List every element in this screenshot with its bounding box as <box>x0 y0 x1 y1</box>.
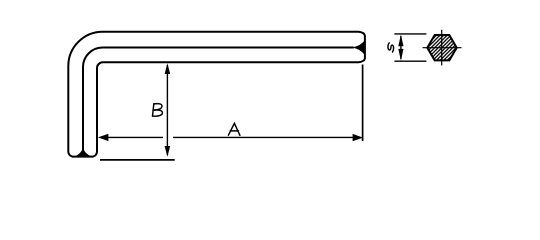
dimension A line left segment <box>108 136 163 138</box>
hexagon horizontal centerline <box>423 47 462 49</box>
extension line bottom (B) <box>100 159 175 161</box>
s label (rotated) <box>388 43 394 52</box>
hex key middle edge line <box>83 48 354 151</box>
B arrow down <box>165 146 171 157</box>
s dimension extension lines <box>394 34 426 61</box>
extension line right (A) <box>362 65 364 142</box>
s arrow up <box>398 35 403 47</box>
dimension B line <box>166 65 168 155</box>
dimension A line right segment <box>173 136 353 138</box>
B arrow up <box>165 63 171 74</box>
A arrow left <box>98 134 108 141</box>
B label <box>153 104 163 117</box>
hex key body outline <box>68 32 365 157</box>
hexagon cross-section <box>427 35 456 60</box>
s arrow down <box>398 49 403 61</box>
hexagon vertical centerline <box>441 30 443 66</box>
bottom tip chamfer wedge <box>75 149 91 157</box>
A label <box>228 123 240 135</box>
A arrow right <box>353 134 363 141</box>
right tip chamfer wedge <box>354 41 365 54</box>
s dimension arrow line <box>400 36 402 59</box>
